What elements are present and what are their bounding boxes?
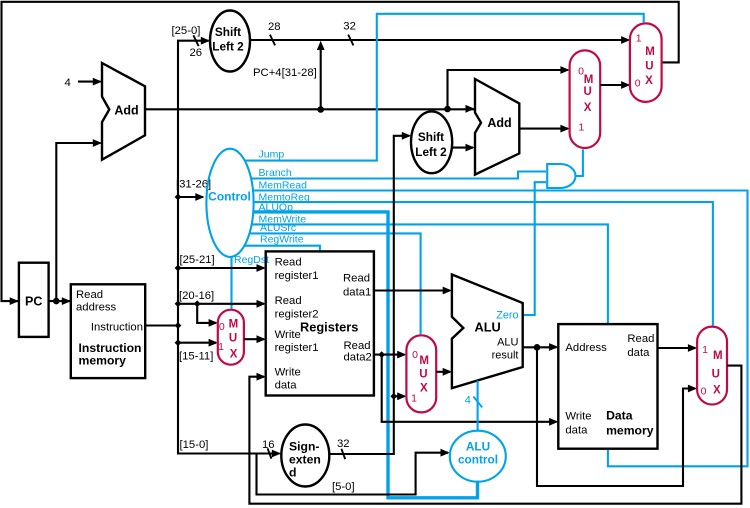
wire: PC value up to Add (PC+4 adder) <box>56 143 100 301</box>
svg-text:[20-16]: [20-16] <box>179 290 214 302</box>
regdst MUX <box>218 310 244 365</box>
wire: instruction output to instruction bus <box>145 324 178 326</box>
junction PC+4 to branch-mux path <box>444 106 451 113</box>
svg-text:Write: Write <box>565 411 591 423</box>
svg-text:Registers: Registers <box>300 320 358 335</box>
wire: PC output to instruction memory read address <box>49 300 71 302</box>
svg-text:0: 0 <box>635 77 641 89</box>
svg-text:register1: register1 <box>275 270 319 282</box>
svg-text:4: 4 <box>465 395 471 407</box>
svg-text:Control: Control <box>208 190 251 204</box>
svg-text:26: 26 <box>190 47 203 59</box>
signal Jump from Control to jump MUX select <box>245 14 644 161</box>
svg-text:Sign-: Sign- <box>289 440 319 454</box>
wire: PC+4 from Add to branch adder <box>145 108 475 110</box>
signal Branch from Control to AND gate <box>251 172 546 179</box>
signal MemWrite from Control to data memory write enable <box>252 224 608 323</box>
svg-text:0: 0 <box>219 321 225 333</box>
svg-text:X: X <box>584 102 592 114</box>
svg-text:M: M <box>713 350 723 362</box>
memtoreg MUX <box>697 327 727 405</box>
shift left 2 (jump) <box>210 11 250 72</box>
svg-text:ALU: ALU <box>466 440 490 454</box>
shift left 2 (branch) <box>411 111 452 173</box>
svg-text:Read: Read <box>275 295 302 307</box>
wire: shift-left-2 output to branch adder <box>452 147 473 149</box>
svg-text:[31-26]: [31-26] <box>176 179 211 191</box>
svg-text:RegWrite: RegWrite <box>260 233 304 245</box>
data memory <box>558 324 657 449</box>
junction Read data2 tap to data memory write data <box>378 351 385 358</box>
svg-text:0: 0 <box>701 386 707 398</box>
branch MUX <box>570 50 601 148</box>
wire: AND gate output to branch MUX select <box>576 149 583 176</box>
junction instruction bus <box>175 322 182 329</box>
svg-text:Write: Write <box>275 329 301 341</box>
svg-text:M: M <box>584 74 594 86</box>
svg-text:Read: Read <box>275 257 302 269</box>
wire: instruction [15-11] to regdst MUX input 1 <box>178 342 216 344</box>
svg-text:M: M <box>419 355 429 367</box>
svg-text:Shift: Shift <box>418 130 444 144</box>
svg-text:Left 2: Left 2 <box>415 145 447 159</box>
wire: PC+4[31-28] up into jump address line <box>320 49 322 110</box>
registers block <box>266 251 374 395</box>
wire: Read data1 to ALU input <box>374 289 450 291</box>
signal ALU operation from ALU control to ALU (4 bits) <box>477 381 479 431</box>
svg-text:[5-0]: [5-0] <box>332 481 355 493</box>
svg-text:register1: register1 <box>275 342 319 354</box>
svg-text:1: 1 <box>702 344 708 356</box>
signal MemRead from Control around right edge to data memory <box>253 191 748 467</box>
wire: jump MUX output wrap-around top/left into PC <box>2 2 679 301</box>
svg-text:ALU: ALU <box>497 337 518 349</box>
svg-text:32: 32 <box>343 21 356 33</box>
wire: [31-26] into Control <box>178 196 203 198</box>
svg-text:ALUOp: ALUOp <box>259 202 294 214</box>
junction [20-16] tap to regdst MUX <box>194 300 201 307</box>
svg-text:Instruction: Instruction <box>91 322 143 334</box>
svg-text:PC+4[31-28]: PC+4[31-28] <box>253 67 317 79</box>
svg-text:4: 4 <box>65 77 71 89</box>
signal RegWrite from Control to Registers <box>244 246 320 251</box>
svg-text:U: U <box>645 61 653 73</box>
svg-text:1: 1 <box>578 122 584 134</box>
svg-text:Write: Write <box>275 367 301 379</box>
AND gate for branch taken <box>547 164 575 188</box>
svg-text:Jump: Jump <box>259 149 285 161</box>
wire: ALU result bypass to memtoreg MUX input 0 <box>537 347 695 486</box>
wire: data memory Read data to memtoreg MUX input 1 <box>658 347 696 349</box>
jump MUX <box>630 23 662 102</box>
wire: [20-16] down into regdst MUX input 0 <box>197 304 216 323</box>
adder Add (PC+4) <box>102 63 145 160</box>
wire: memtoreg MUX output along bottom back to Write data of registers <box>249 366 741 504</box>
wire: jump address line from shift-left-2 to jump MUX input 1 <box>250 39 629 41</box>
svg-text:address: address <box>76 302 117 314</box>
junction PC+4 to jump-address concat <box>317 106 324 113</box>
junction sign-extend output to ALUSrc MUX <box>390 393 397 400</box>
wire: [5-0] from sign-extend input to ALU control <box>257 453 449 495</box>
svg-text:PC: PC <box>25 295 42 309</box>
ALU control unit <box>450 431 506 482</box>
svg-text:28: 28 <box>268 21 281 33</box>
wire: sign-extended immediate into ALUSrc MUX input 1 <box>394 395 405 397</box>
svg-text:X: X <box>420 383 428 395</box>
wire: PC+4 up and over to branch MUX input 0 <box>448 70 569 109</box>
svg-text:Read: Read <box>344 340 371 352</box>
svg-text:U: U <box>419 369 427 381</box>
svg-text:Read: Read <box>76 289 103 301</box>
signal RegDst from Control to regdst MUX select <box>230 256 232 308</box>
svg-text:X: X <box>713 385 721 397</box>
wire: branch adder output to branch MUX input 1 <box>519 128 568 130</box>
svg-text:memory: memory <box>606 424 654 438</box>
svg-text:d: d <box>289 466 296 480</box>
signal Zero from ALU to AND gate <box>523 182 546 315</box>
svg-text:ALU: ALU <box>475 320 501 335</box>
svg-text:M: M <box>229 319 239 331</box>
svg-text:Zero: Zero <box>496 310 518 322</box>
signal ALUSrc from Control to ALUSrc MUX select <box>250 233 421 334</box>
svg-text:RegDst: RegDst <box>234 254 269 266</box>
signal MemtoReg from Control to memtoreg MUX select <box>254 202 713 325</box>
ALUSrc MUX <box>406 335 436 412</box>
svg-text:32: 32 <box>337 438 350 450</box>
wire: instruction [25-21] to Read register1 <box>178 267 264 269</box>
svg-text:1: 1 <box>636 33 642 45</box>
svg-text:result: result <box>492 350 519 362</box>
instruction memory <box>71 284 145 378</box>
svg-text:X: X <box>230 349 238 361</box>
svg-text:U: U <box>229 333 237 345</box>
svg-text:U: U <box>583 86 591 98</box>
svg-text:M: M <box>645 46 655 58</box>
svg-text:Read: Read <box>343 273 370 285</box>
svg-text:Data: Data <box>606 409 633 423</box>
svg-text:1: 1 <box>411 393 417 405</box>
control unit ellipse <box>206 149 253 257</box>
sign-extend unit <box>281 425 329 487</box>
svg-text:data2: data2 <box>344 352 372 364</box>
wire: branch MUX output to jump MUX input 0 <box>600 84 628 86</box>
svg-text:[15-11]: [15-11] <box>179 351 213 363</box>
wire: Read data2 to ALUSrc MUX input 0 <box>374 354 405 356</box>
svg-text:ALUSrc: ALUSrc <box>260 222 296 234</box>
svg-text:data: data <box>627 347 650 359</box>
wire: ALU result to data memory Address <box>523 346 557 348</box>
svg-text:[15-0]: [15-0] <box>180 439 209 451</box>
svg-text:memory: memory <box>79 354 127 368</box>
wire: ALUSrc MUX output to ALU input <box>436 371 450 373</box>
svg-text:Read: Read <box>627 333 654 345</box>
svg-text:0: 0 <box>412 349 418 361</box>
svg-text:Address: Address <box>565 342 607 354</box>
junction ALU result <box>534 344 541 351</box>
svg-text:data1: data1 <box>343 287 371 299</box>
svg-text:[25-21]: [25-21] <box>180 254 215 266</box>
svg-text:data: data <box>275 380 298 392</box>
svg-text:Left 2: Left 2 <box>212 40 244 54</box>
svg-text:Add: Add <box>114 104 138 118</box>
svg-text:MemRead: MemRead <box>259 180 308 192</box>
svg-text:1: 1 <box>218 341 224 353</box>
svg-text:data: data <box>565 425 588 437</box>
wire: instruction [20-16] to Read register2 <box>178 303 264 305</box>
svg-text:exten: exten <box>289 453 321 467</box>
junction on PC output <box>53 298 60 305</box>
svg-text:[25-0]: [25-0] <box>172 25 201 37</box>
register PC <box>19 263 49 337</box>
svg-text:16: 16 <box>262 439 275 451</box>
svg-text:Add: Add <box>487 116 511 130</box>
svg-text:Branch: Branch <box>259 167 292 179</box>
signal ALUOp from Control down and along bottom to ALU control <box>253 212 477 498</box>
wire: Read data2 down to data memory Write data <box>382 355 557 422</box>
ALU <box>452 275 523 389</box>
branch adder Add <box>475 79 519 175</box>
svg-text:U: U <box>712 369 720 381</box>
wire: regdst MUX output to Write register <box>244 338 264 340</box>
wire: instruction bus vertical with [25-0] to shift-left-2 and [15-0] to sign-extend <box>178 41 280 454</box>
svg-text:Shift: Shift <box>215 25 241 39</box>
svg-text:X: X <box>645 75 653 87</box>
svg-text:control: control <box>458 453 498 467</box>
wire: sign-extend output up to shift-left-2 (branch) <box>329 136 409 454</box>
